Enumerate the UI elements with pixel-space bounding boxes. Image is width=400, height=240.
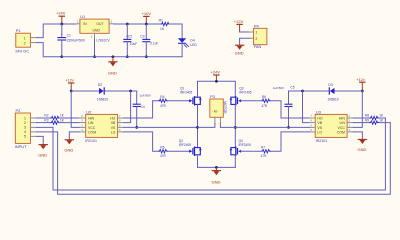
wire VB tap down to U3.VB xyxy=(303,91,310,123)
svg-text:2: 2 xyxy=(24,121,26,125)
pin stubs P4 xyxy=(250,32,254,38)
wire: +10V top rail xyxy=(114,23,161,25)
svg-text:GND: GND xyxy=(212,179,221,184)
wire +12v down to U3.VCC xyxy=(353,91,362,127)
pin stubs P2 xyxy=(30,118,36,136)
node: VB tap left xyxy=(129,90,132,93)
svg-text:VS: VS xyxy=(111,126,116,130)
svg-text:IR2101: IR2101 xyxy=(316,139,328,143)
node: C2 top xyxy=(126,23,129,26)
wire Q3 source to midpoint xyxy=(234,105,236,148)
svg-text:1K: 1K xyxy=(160,27,165,31)
wire P2.4 to bottom loop B xyxy=(37,123,391,195)
svg-text:R9: R9 xyxy=(365,118,369,122)
ground (U3 COM) xyxy=(358,139,367,152)
svg-text:R7: R7 xyxy=(261,146,265,150)
svg-text:- M -: - M - xyxy=(212,110,219,114)
wire: bridge bottom rail xyxy=(198,166,236,168)
svg-text:1uF/50V: 1uF/50V xyxy=(273,86,284,90)
capacitor C5 1uF/50V xyxy=(273,85,295,127)
wire U3.VS to right bridge midpoint xyxy=(235,126,309,128)
svg-text:R3: R3 xyxy=(44,118,48,122)
svg-text:1N5819: 1N5819 xyxy=(327,98,338,102)
resistor R3 1K xyxy=(37,118,80,124)
svg-text:IRF2405: IRF2405 xyxy=(239,143,251,147)
svg-text:HO: HO xyxy=(317,116,323,120)
svg-text:R5: R5 xyxy=(160,146,164,150)
node: +12v junction left xyxy=(70,90,73,93)
svg-text:GND: GND xyxy=(235,50,244,55)
svg-text:47R: 47R xyxy=(261,104,268,108)
regulator U1 L7810CV xyxy=(80,14,111,42)
resistor R9 1K xyxy=(353,118,384,124)
wire D2 to C4/VB xyxy=(105,90,137,92)
wire VB tap down to U2.VB xyxy=(124,91,131,123)
node: U1 gnd junction xyxy=(93,55,96,58)
svg-text:VB: VB xyxy=(111,121,116,125)
svg-text:VB: VB xyxy=(317,121,322,125)
svg-text:R8: R8 xyxy=(365,114,369,118)
svg-text:D2: D2 xyxy=(98,83,102,87)
resistor R8 1K xyxy=(353,114,384,120)
wire +12v to D3 xyxy=(335,90,363,92)
pin numbers U3 right xyxy=(349,114,351,132)
node: C3 bottom xyxy=(145,55,148,58)
svg-text:VCC: VCC xyxy=(338,126,346,130)
svg-text:IR2101: IR2101 xyxy=(85,139,97,143)
resistor R4 47R xyxy=(159,95,167,108)
svg-text:GND: GND xyxy=(108,70,117,75)
node: C1 top junction xyxy=(60,23,63,26)
svg-text:C3: C3 xyxy=(140,34,144,38)
svg-text:OUT: OUT xyxy=(96,22,103,26)
svg-text:LO: LO xyxy=(317,130,322,134)
svg-text:+12V: +12V xyxy=(234,19,244,24)
svg-text:R1: R1 xyxy=(159,18,163,22)
transistor Q2 IRF2405 xyxy=(179,139,202,156)
svg-text:C4: C4 xyxy=(141,105,145,109)
transistor Q4 IRF2405 (mirrored) xyxy=(230,139,251,156)
svg-text:COM: COM xyxy=(337,130,345,134)
connector P2 INPUT xyxy=(15,108,31,149)
wire R5 to Q2 gate xyxy=(167,150,189,152)
diode D2 1N5819 xyxy=(97,83,108,101)
svg-text:GND: GND xyxy=(38,152,47,157)
wire Q2 source to bottom rail xyxy=(197,155,199,167)
wire P2.3 to bottom loop A xyxy=(37,118,386,190)
wire R7 to Q4 gate xyxy=(241,150,262,152)
resistor R7 47R xyxy=(261,146,271,159)
diode D3 1N5819 (mirrored) xyxy=(327,83,338,101)
node: C2 bottom xyxy=(126,55,129,58)
svg-text:VS: VS xyxy=(317,126,322,130)
svg-text:47R: 47R xyxy=(160,154,167,158)
ground (supply rail) xyxy=(108,57,117,76)
wire P3.2 to right midpoint xyxy=(220,124,235,128)
connector P4 FAN xyxy=(254,24,267,50)
pin stubs P1 xyxy=(30,38,36,43)
pin 2 U1 xyxy=(109,20,114,24)
wire U2.LO to R5 xyxy=(124,132,159,151)
svg-text:+12v: +12v xyxy=(65,79,73,83)
svg-text:2: 2 xyxy=(255,37,257,41)
wire P2.5 to gnd xyxy=(37,136,44,144)
svg-text:P1: P1 xyxy=(16,28,22,33)
wire P4.2 to gnd xyxy=(240,38,250,45)
svg-text:0.1uF: 0.1uF xyxy=(150,42,158,46)
svg-text:VCC: VCC xyxy=(88,126,96,130)
power +10V xyxy=(142,11,152,24)
wire R1 to LED xyxy=(170,24,183,38)
svg-text:IRF2405: IRF2405 xyxy=(179,143,191,147)
svg-text:2: 2 xyxy=(24,42,26,46)
svg-text:FAN: FAN xyxy=(254,45,262,49)
svg-text:GND: GND xyxy=(92,28,100,32)
svg-text:IRF2405: IRF2405 xyxy=(180,91,192,95)
power +12v (left driver) xyxy=(65,79,73,91)
svg-text:1: 1 xyxy=(24,116,26,120)
resistor R1 1K xyxy=(159,18,170,30)
pin stubs U2 left xyxy=(80,118,86,132)
svg-text:HIN: HIN xyxy=(88,116,95,120)
wire +12V to P4.1 xyxy=(240,31,250,33)
node: left midpoint xyxy=(196,126,199,129)
LED D4 xyxy=(178,38,197,47)
resistor R2 1K xyxy=(37,114,80,120)
svg-text:R4: R4 xyxy=(160,95,164,99)
svg-text:U1: U1 xyxy=(80,14,86,19)
wire +12v down to U2.VCC xyxy=(71,91,79,127)
power +12v (right driver) xyxy=(356,78,365,91)
svg-text:3: 3 xyxy=(24,126,26,130)
svg-text:LIN: LIN xyxy=(339,121,345,125)
pin numbers U2 right xyxy=(119,114,121,132)
node: VB tap right xyxy=(301,90,304,93)
ground (P2) xyxy=(38,145,47,158)
wire U3.HO to R6 xyxy=(270,101,309,118)
node: C4 bottom on VS row xyxy=(135,126,138,129)
svg-text:INPUT: INPUT xyxy=(15,144,28,149)
node: bridge gnd xyxy=(215,166,218,169)
svg-text:+10V: +10V xyxy=(142,11,152,16)
svg-text:LIN: LIN xyxy=(88,121,94,125)
pin numbers U2 left xyxy=(81,114,83,132)
svg-text:1N5819: 1N5819 xyxy=(97,98,108,102)
wire +12v to D2 xyxy=(71,90,99,92)
svg-text:1: 1 xyxy=(255,31,257,35)
node: C5 bottom on VS row xyxy=(287,126,290,129)
svg-text:D4: D4 xyxy=(190,39,194,43)
svg-text:U3: U3 xyxy=(316,109,322,114)
wire Q1 source to midpoint xyxy=(197,105,199,148)
svg-text:P4: P4 xyxy=(254,24,260,29)
svg-text:+12v: +12v xyxy=(356,78,364,82)
wire U3.LO to R7 xyxy=(270,132,309,151)
connector P3 MOTOR xyxy=(210,94,227,117)
svg-text:C5: C5 xyxy=(290,85,294,89)
svg-text:L7810CV: L7810CV xyxy=(96,39,110,43)
capacitor C4 1uF/50V xyxy=(133,91,151,127)
connector P1 xyxy=(15,28,30,53)
node: +12v junction right xyxy=(361,90,364,93)
pin stubs U2 right xyxy=(118,118,124,132)
svg-text:COM: COM xyxy=(88,130,96,134)
wire Q4 source to bottom rail xyxy=(234,155,236,167)
node: gnd stem junction xyxy=(112,55,115,58)
power +24V (supply input) xyxy=(56,11,66,24)
svg-text:P2: P2 xyxy=(16,108,22,113)
transistor Q1 IRF2405 xyxy=(180,87,202,105)
svg-text:C1: C1 xyxy=(67,34,71,38)
resistor R5 47R xyxy=(159,146,167,159)
svg-text:R2: R2 xyxy=(44,114,48,118)
power +12V (fan) xyxy=(234,19,244,32)
svg-text:IRF2405: IRF2405 xyxy=(239,91,251,95)
svg-text:MOTOR: MOTOR xyxy=(223,101,227,114)
pin 3 U1 (GND) xyxy=(91,33,95,56)
wire R4 to Q1 gate xyxy=(167,100,189,102)
wire: supply bottom (ground) rail xyxy=(62,56,182,58)
svg-text:R6: R6 xyxy=(262,95,266,99)
svg-text:HIN: HIN xyxy=(339,116,346,120)
ground (U2 COM) xyxy=(64,140,73,153)
power +24V (bridge) xyxy=(211,70,221,82)
wire P1.1 to top rail xyxy=(37,24,76,38)
svg-text:+: + xyxy=(61,33,63,37)
svg-text:U2: U2 xyxy=(86,109,92,114)
svg-text:1uF/50V: 1uF/50V xyxy=(140,94,151,98)
svg-text:+24V: +24V xyxy=(56,11,66,16)
ground (bridge) xyxy=(212,167,221,184)
svg-text:5: 5 xyxy=(24,135,26,139)
node: right midpoint xyxy=(234,126,237,129)
svg-text:+24V: +24V xyxy=(211,70,221,75)
wire P3.1 to left midpoint xyxy=(198,124,215,128)
pin stubs P3 xyxy=(215,117,221,123)
svg-text:P3: P3 xyxy=(210,94,216,99)
svg-text:47R: 47R xyxy=(261,154,268,158)
pin stubs U3 left xyxy=(309,118,315,132)
svg-text:47R: 47R xyxy=(160,104,167,108)
svg-text:D3: D3 xyxy=(328,83,332,87)
svg-text:GND: GND xyxy=(64,148,73,153)
svg-text:10uF: 10uF xyxy=(130,42,137,46)
wire U2.HO to R4 xyxy=(124,101,159,118)
node: C3 top xyxy=(145,23,148,26)
capacitor C2 10uF xyxy=(124,24,137,57)
wire U3.COM to gnd xyxy=(353,132,362,139)
wire LED to bottom rail xyxy=(181,43,183,56)
svg-text:2200uF/50V: 2200uF/50V xyxy=(67,38,86,42)
pin numbers U3 left xyxy=(310,114,312,132)
svg-text:1: 1 xyxy=(24,37,26,41)
wire D3 to C5/VB xyxy=(289,90,329,92)
svg-text:+C2: +C2 xyxy=(126,35,132,39)
svg-text:4: 4 xyxy=(24,130,26,134)
pin 1 U1 xyxy=(76,20,80,24)
transistor Q3 IRF2405 (mirrored) xyxy=(230,87,252,105)
node: C1 bottom junction xyxy=(60,55,63,58)
wire P1.2 to bottom rail xyxy=(37,43,62,57)
svg-text:24V DC: 24V DC xyxy=(15,49,29,54)
wire U2.VS to left bridge midpoint xyxy=(124,126,198,128)
svg-text:LO: LO xyxy=(111,130,116,134)
svg-text:HO: HO xyxy=(110,116,116,120)
op-amp U2 IR2101 (gate driver) xyxy=(85,109,117,142)
svg-text:GND: GND xyxy=(358,147,367,152)
capacitor C3 0.1uF xyxy=(140,24,158,57)
op-amp U3 IR2101 (gate driver) xyxy=(315,109,347,142)
ground (fan) xyxy=(235,45,244,55)
wire R6 to Q3 gate xyxy=(241,100,262,102)
capacitor C1 2200uF/50V xyxy=(58,24,86,57)
pin stubs U3 right xyxy=(347,118,353,132)
wire: bridge top rail xyxy=(198,81,236,97)
svg-text:IN: IN xyxy=(83,22,87,26)
node: +24V on rail xyxy=(215,80,218,83)
resistor R6 47R xyxy=(261,95,270,108)
wire U2.COM to gnd xyxy=(69,132,79,140)
svg-text:LED: LED xyxy=(190,43,197,47)
